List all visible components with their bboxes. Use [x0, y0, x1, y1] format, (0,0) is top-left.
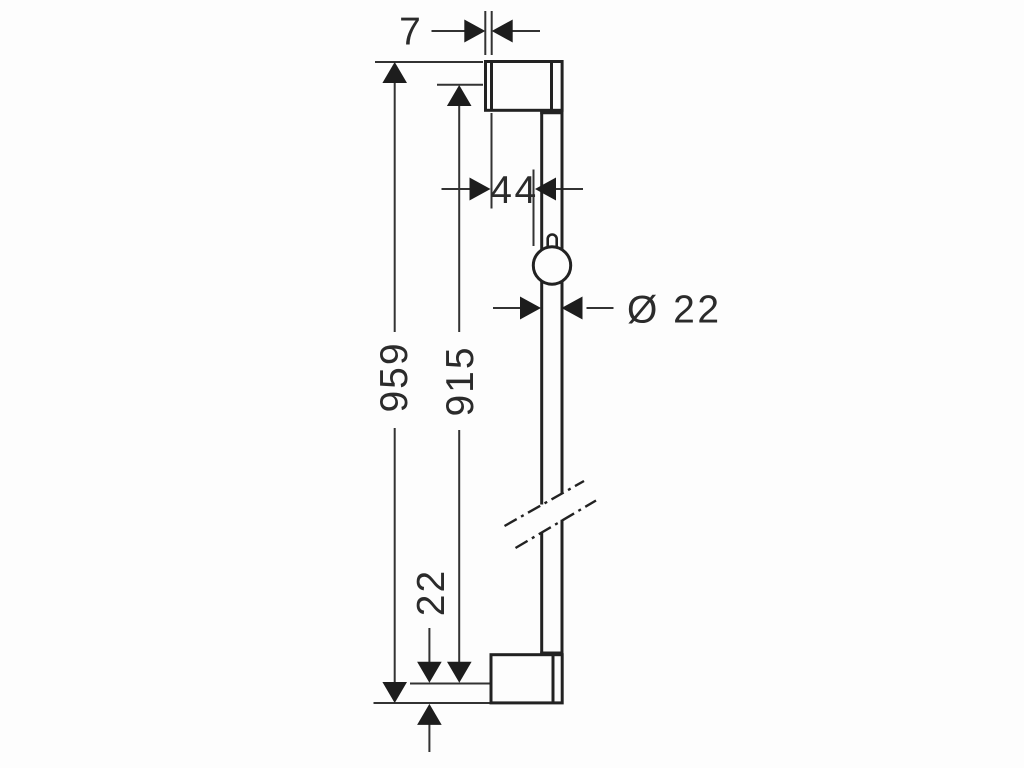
svg-text:Ø 22: Ø 22 [627, 288, 722, 331]
svg-text:44: 44 [490, 169, 538, 212]
svg-text:22: 22 [410, 569, 453, 616]
svg-text:915: 915 [439, 345, 482, 416]
svg-text:959: 959 [373, 341, 416, 412]
svg-text:7: 7 [399, 11, 421, 54]
